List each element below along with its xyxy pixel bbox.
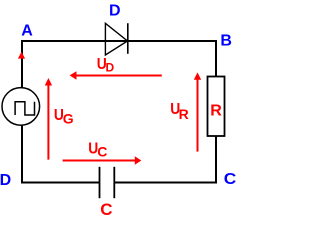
svg-text:G: G [63,110,74,126]
svg-text:C: C [97,143,107,159]
svg-text:D: D [0,172,11,189]
svg-text:D: D [109,3,121,20]
voltage arrow UR shaft [197,80,199,152]
svg-text:R: R [210,103,222,120]
voltage label UC [88,140,107,159]
svg-text:B: B [220,32,232,49]
wire bottom left (D to capacitor) [21,182,100,184]
capacitor C right plate [113,167,115,198]
capacitor C left plate [99,167,101,198]
wire right lower (resistor to C) [215,135,217,184]
wire left lower (generator to D) [21,125,23,184]
diode D1 triangle [105,23,127,55]
voltage label UR [170,101,188,122]
voltage arrow UD shaft [76,75,162,77]
voltage arrow UD head [70,71,77,80]
voltage arrow UR head [194,72,201,79]
diode D1 cathode bar [127,23,129,54]
generator G square-wave symbol [15,102,34,115]
wire top A-B [21,40,217,42]
voltage arrow UG head [45,78,52,86]
voltage label UD [97,56,115,74]
generator G circle [2,88,40,126]
voltage arrow UC shaft [63,160,136,162]
resistor R body [208,77,225,137]
voltage arrow UG shaft [47,85,49,160]
svg-text:C: C [100,200,112,217]
svg-text:D: D [106,60,115,74]
svg-text:R: R [179,106,189,122]
voltage label UG [54,107,74,126]
wire bottom right (capacitor to C) [114,182,217,184]
wire left upper (A to generator) [21,40,23,88]
svg-text:C: C [224,171,236,188]
svg-text:A: A [21,23,33,40]
current direction arrowhead on left wire [18,52,25,59]
wire right upper (B to resistor) [215,40,217,77]
voltage arrow UC head [135,156,142,164]
